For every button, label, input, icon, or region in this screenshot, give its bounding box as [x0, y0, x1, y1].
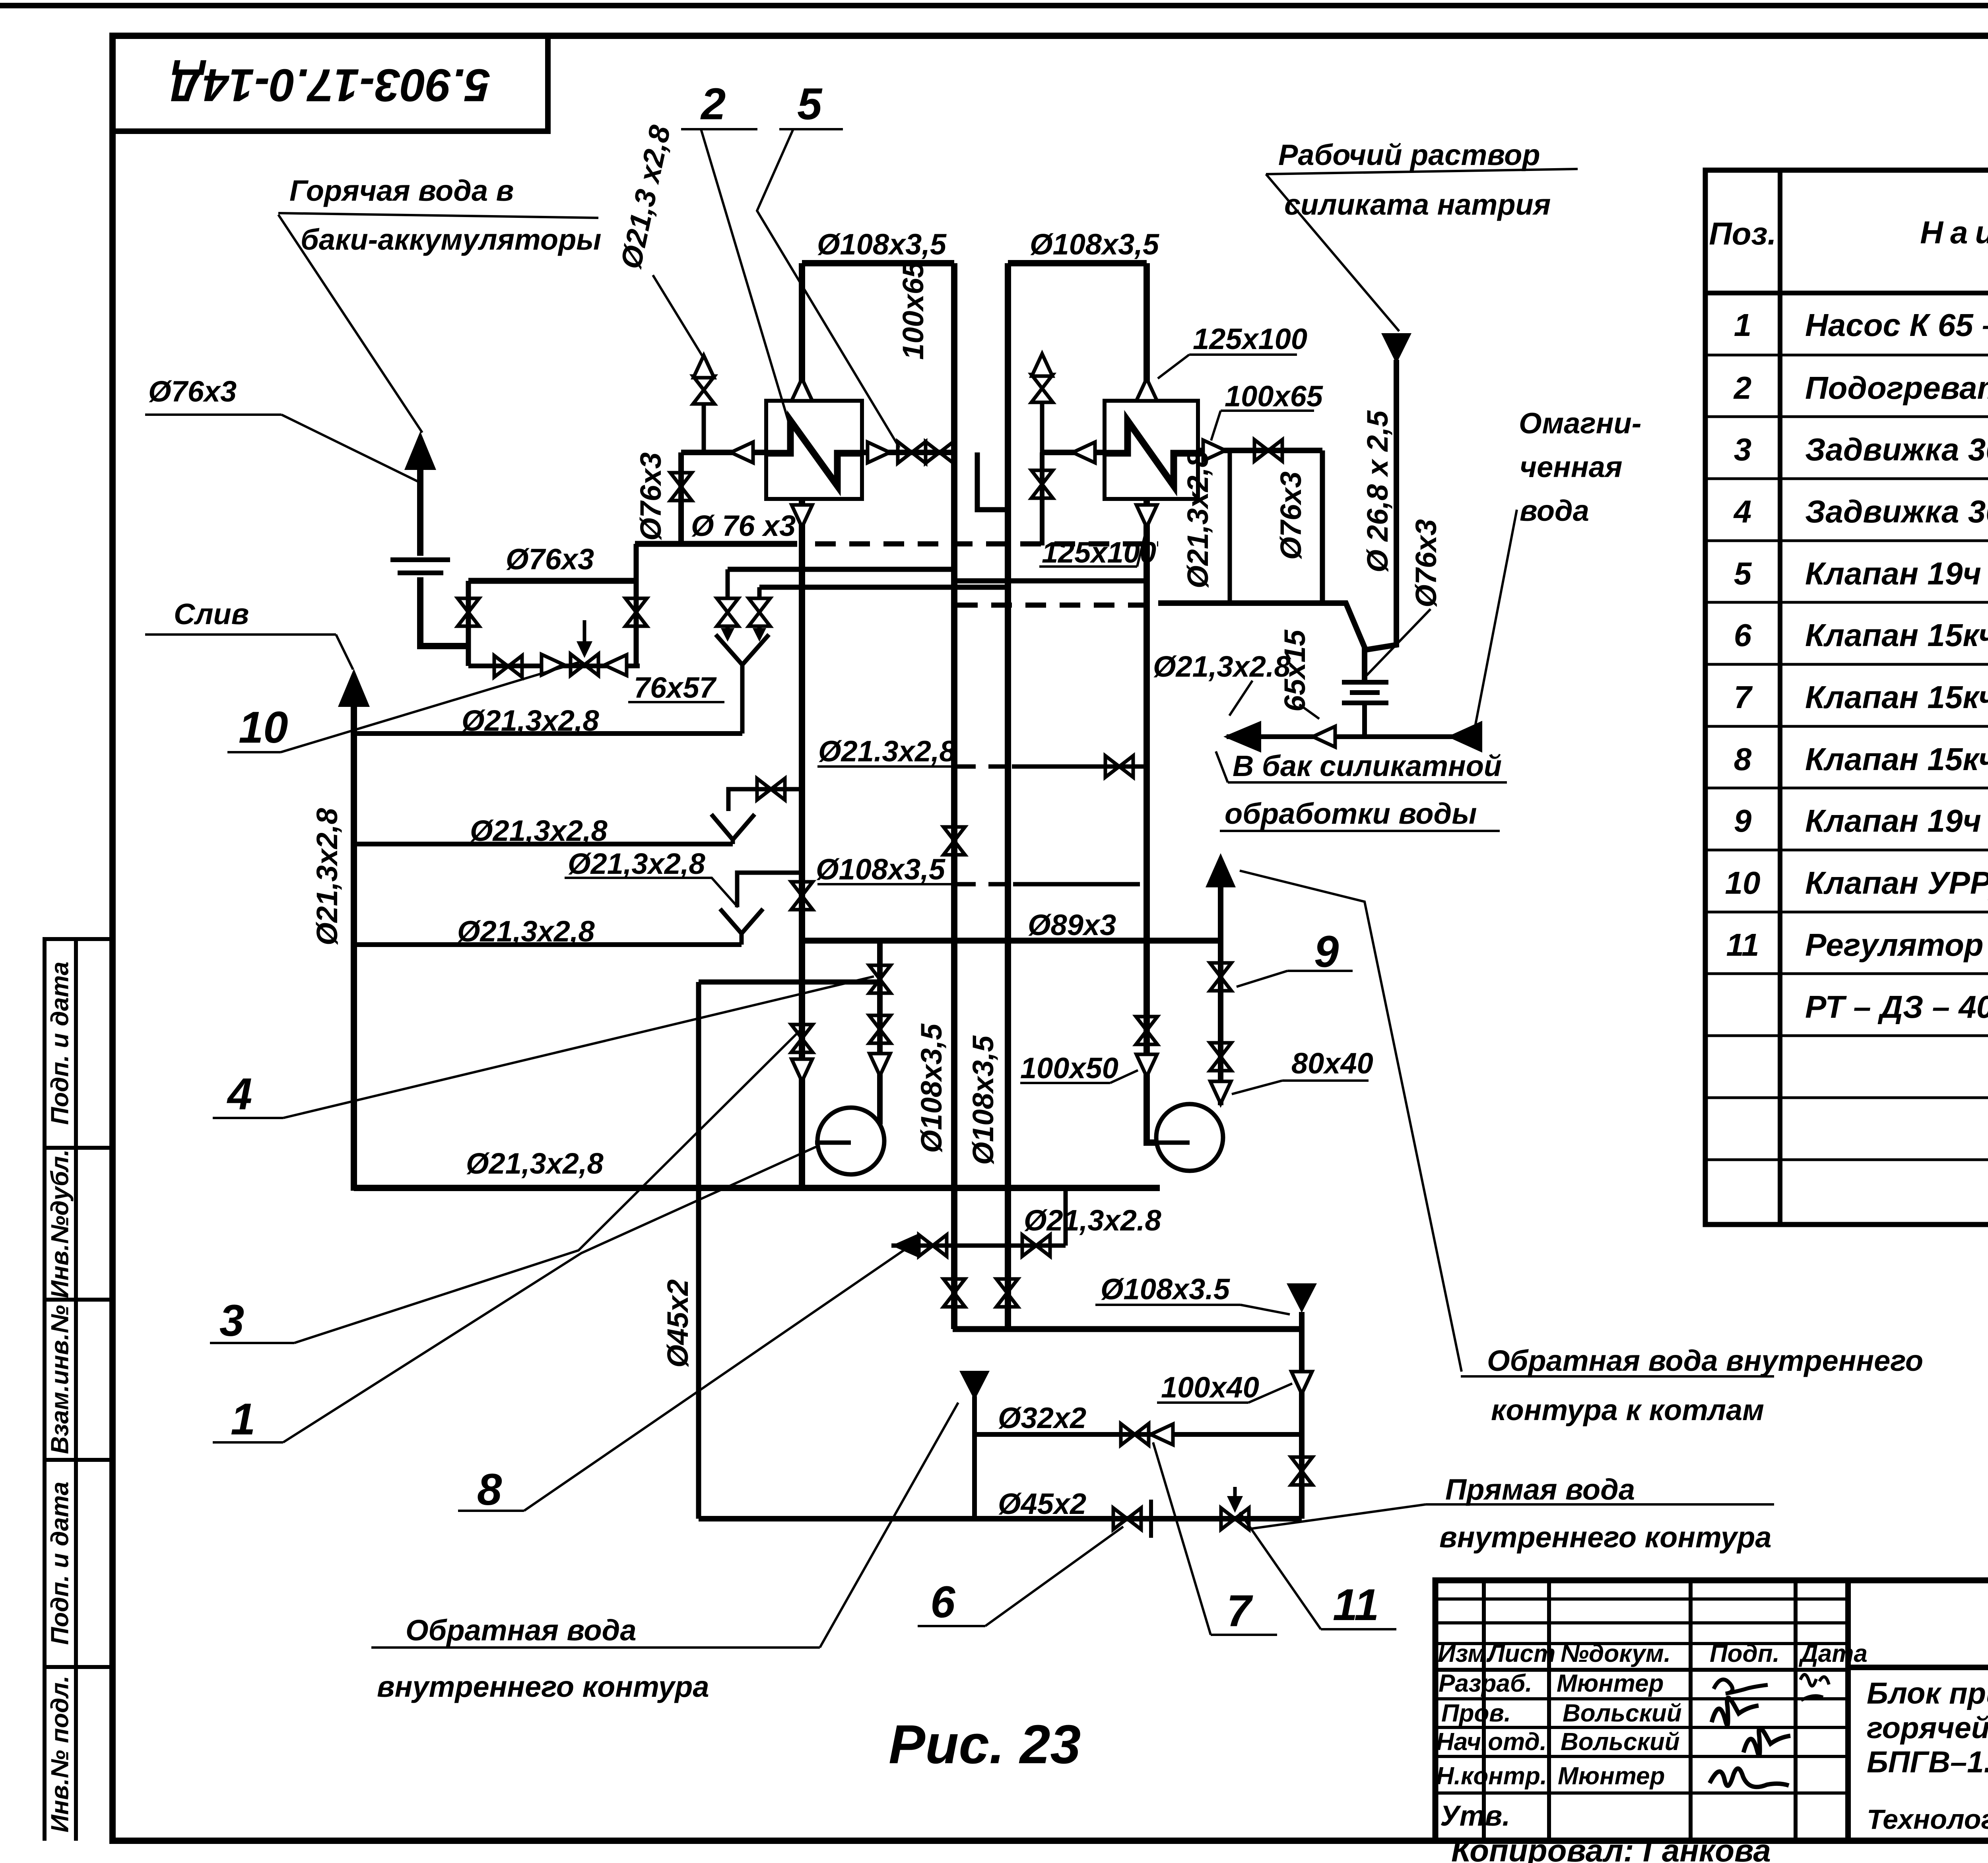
sliv arrow: [338, 669, 370, 707]
magnetizer bar 2: [1350, 690, 1380, 695]
boiler return arrow up: [1206, 853, 1236, 887]
hx1 right pipe: [861, 450, 954, 455]
svg-text:Ø45х2: Ø45х2: [998, 1487, 1086, 1520]
svg-text:ченная: ченная: [1520, 450, 1622, 483]
svg-text:Ø21,3х2,8: Ø21,3х2,8: [470, 814, 608, 847]
svg-text:Утв.: Утв.: [1440, 1800, 1510, 1832]
leader pos4: [283, 976, 874, 1118]
riser1 top arrow: [792, 378, 812, 401]
funnel C stem: [740, 932, 744, 945]
tb hline row razrab: [1435, 1697, 1848, 1700]
SEC-TABLE: [1705, 170, 1988, 1225]
tb date scribble: [1800, 1675, 1829, 1700]
leader 125x100 lower: [1137, 522, 1148, 567]
leader 21.3 funnel c label: [565, 878, 738, 907]
underline 125x100 lower label: [1039, 565, 1137, 568]
svg-text:Подогреватель водоводяной: Подогреватель водоводяной: [1805, 370, 1988, 406]
svg-text:Обратная вода: Обратная вода: [406, 1614, 636, 1647]
svg-text:4: 4: [227, 1069, 252, 1119]
dashed tie line 76x3: [815, 541, 1158, 547]
pump drain line: [891, 1244, 1066, 1248]
hx2 left check arrow: [1073, 442, 1095, 463]
tb vline podp: [1794, 1580, 1798, 1841]
underline hot water label: [278, 213, 598, 218]
funnel B stem: [731, 838, 735, 844]
vent 1 valve: [693, 376, 714, 404]
hx1 left drop: [678, 452, 684, 545]
right leg down: [1299, 1329, 1305, 1519]
table row line 14: [1705, 1159, 1988, 1161]
left margin box line 1: [43, 937, 113, 941]
svg-text:внутреннего контура: внутреннего контура: [1439, 1521, 1772, 1554]
svg-text:3: 3: [1734, 432, 1752, 467]
regulator loop left: [696, 982, 701, 1519]
lower header riser stub: [1299, 1312, 1305, 1329]
top header 2 108x3.5: [1008, 260, 1147, 266]
table row line 5: [1705, 601, 1988, 604]
SEC-TITLEBLOCK: [1435, 1580, 1988, 1841]
svg-text:РТ – ДЗ – 40 ( 40 – 80 ) – 6: РТ – ДЗ – 40 ( 40 – 80 ) – 6: [1805, 989, 1988, 1025]
svg-text:Подп. и дата: Подп. и дата: [46, 962, 74, 1125]
table row line 2: [1705, 415, 1988, 418]
table row line 4: [1705, 539, 1988, 542]
underline pos3: [210, 1342, 294, 1344]
leader pos11: [1240, 1512, 1321, 1629]
svg-text:обработки воды: обработки воды: [1225, 797, 1477, 830]
svg-text:Рис. 23: Рис. 23: [889, 1714, 1081, 1775]
underline pos8: [458, 1510, 524, 1512]
tie 108 solid: [1013, 882, 1140, 887]
svg-text:Разраб.: Разраб.: [1439, 1670, 1532, 1697]
drip stub arrow a: [726, 625, 730, 635]
valve on drain tie: [1105, 756, 1133, 777]
svg-text:8: 8: [477, 1465, 502, 1514]
magnetizer bar 1: [1342, 680, 1388, 685]
drain line 3: [357, 942, 742, 947]
underline pos5: [779, 128, 843, 130]
left margin box line 2: [43, 1146, 113, 1150]
svg-text:В бак силикатной: В бак силикатной: [1233, 749, 1502, 782]
svg-text:Вольский: Вольский: [1561, 1728, 1680, 1756]
hx1 right check arrow: [868, 442, 890, 463]
svg-text:Н.контр.: Н.контр.: [1436, 1762, 1547, 1790]
blowoff branch from riser 1: [728, 789, 802, 811]
svg-text:Подп. и дата: Подп. и дата: [46, 1482, 74, 1645]
underline 108x3.5 lower label: [1095, 1304, 1241, 1306]
leader 76x3 top label: [282, 415, 419, 482]
hx2 drain drop 21.3: [1228, 450, 1232, 603]
svg-text:Ø108х3,5: Ø108х3,5: [915, 1023, 948, 1153]
leader pos2: [701, 129, 788, 421]
underline 125x100 upper label: [1189, 353, 1297, 356]
svg-text:2: 2: [700, 79, 726, 129]
svg-text:Клапан 15кч 19п2 dу 25: Клапан 15кч 19п2 dу 25: [1805, 679, 1988, 715]
pump 2: [1156, 1104, 1223, 1171]
svg-text:контура к котлам: контура к котлам: [1491, 1393, 1764, 1426]
pump drain arrow: [891, 1233, 919, 1258]
svg-text:1: 1: [1734, 307, 1752, 343]
underline 100x50 label: [1020, 1082, 1110, 1084]
hx2 left drop: [1040, 452, 1044, 545]
svg-text:Прямая вода: Прямая вода: [1445, 1473, 1635, 1506]
svg-text:5: 5: [797, 79, 823, 129]
svg-text:10: 10: [239, 703, 288, 752]
tie line c: [954, 578, 1147, 584]
svg-text:3: 3: [219, 1296, 244, 1345]
drip stub from line 108x3.5b: [757, 587, 762, 600]
svg-text:1: 1: [231, 1394, 255, 1444]
lower arrow on riser1: [792, 1059, 812, 1081]
leader omagnichennaya label: [1474, 510, 1517, 735]
pump2 discharge reducer: [1210, 1081, 1231, 1104]
check on 32x2 line: [1151, 1424, 1173, 1445]
svg-text:11: 11: [1333, 1580, 1379, 1630]
svg-text:Ø21,3х2.8: Ø21,3х2.8: [1024, 1204, 1161, 1237]
drain assembly line 76x57: [468, 664, 640, 668]
riser4 suction reducer: [1136, 1054, 1157, 1077]
hot water pipe vertical: [417, 467, 423, 556]
svg-text:Изм.: Изм.: [1438, 1640, 1493, 1667]
underline 80x40 label: [1282, 1079, 1369, 1082]
svg-text:Клапан 15кч 19п2 dу 40: Клапан 15кч 19п2 dу 40: [1805, 617, 1988, 653]
underline pos1: [213, 1441, 283, 1444]
underline 76x3 top label: [145, 413, 282, 416]
svg-text:7: 7: [1734, 679, 1753, 715]
check arrow silicate line: [1313, 726, 1335, 747]
svg-text:Ø 26,8 х 2,5: Ø 26,8 х 2,5: [1361, 410, 1394, 572]
bypass right valve: [625, 598, 647, 626]
svg-text:Обратная вода внутреннего: Обратная вода внутреннего: [1487, 1344, 1923, 1377]
valve 10 actuator arrowhead: [577, 641, 592, 658]
tb vline data: [1845, 1580, 1851, 1841]
magnetizer bar 3: [1342, 701, 1388, 705]
svg-text:Ø32х2: Ø32х2: [998, 1401, 1086, 1434]
paper top edge line: [0, 3, 1988, 8]
svg-text:Слив: Слив: [174, 598, 249, 631]
svg-text:Блок приготовления: Блок приготовления: [1867, 1677, 1988, 1710]
underline pos4: [213, 1117, 283, 1119]
check valve on drain assembly: [542, 654, 564, 675]
underline pos2: [681, 128, 757, 130]
svg-text:6: 6: [1734, 617, 1752, 653]
svg-text:баки-аккумуляторы: баки-аккумуляторы: [301, 223, 601, 256]
underline v bak line1: [1228, 781, 1507, 784]
tie line b: [759, 585, 1008, 590]
check valve left on drain assembly: [604, 655, 627, 675]
regulator 11 actuator arrowhead: [1227, 1496, 1243, 1513]
main riser 1: [799, 263, 805, 1191]
leader sliv label: [336, 635, 353, 670]
pump1 discharge reducer: [870, 1054, 890, 1076]
valve 10 actuator arrow: [583, 620, 586, 654]
svg-text:Ø76х3: Ø76х3: [148, 375, 237, 408]
tb hline row nkontr: [1435, 1791, 1848, 1795]
pipe 32x2 arrow: [959, 1371, 990, 1400]
svg-text:Насос К 65 – 50 – 160: Насос К 65 – 50 – 160: [1805, 307, 1988, 343]
riser4 bottom arrow: [1136, 505, 1157, 527]
svg-text:Омагни-: Омагни-: [1519, 407, 1641, 440]
water seal bar 1: [390, 557, 450, 562]
heat exchanger 2: [1105, 401, 1198, 499]
magnet feed line: [1158, 603, 1365, 681]
left margin box line 5: [43, 1665, 113, 1669]
svg-text:Ø76х3: Ø76х3: [1409, 519, 1442, 607]
pump1 discharge column: [877, 941, 883, 1124]
leader 65x15 label: [1299, 704, 1319, 719]
svg-text:Ø 76 х3: Ø 76 х3: [691, 509, 796, 542]
svg-text:9: 9: [1314, 927, 1339, 976]
svg-text:Ø108х3,5: Ø108х3,5: [817, 228, 947, 261]
regulator valve 11: [1221, 1508, 1249, 1529]
hx1 left drop valve: [670, 473, 692, 501]
drain tie 21.3 dashed: [957, 765, 1012, 769]
underline 76x57 label: [628, 701, 724, 703]
silicate pipe 26.8x2.5: [1367, 360, 1396, 650]
lower header 108x3.5: [953, 1326, 1302, 1332]
stamp box bottom line: [110, 128, 551, 134]
water seal bar 2: [398, 571, 443, 575]
drip stub from line 108x3.5a: [726, 569, 730, 600]
funnel A: [716, 635, 769, 665]
SEC-SCHEMA-VALVES: [458, 354, 1335, 1538]
underline obratnaya label: [371, 1646, 820, 1649]
drain line to sliv: [357, 731, 742, 736]
underline pos10: [227, 751, 281, 753]
drip valve a: [717, 598, 738, 626]
svg-text:4: 4: [1733, 494, 1752, 529]
regulator loop top: [699, 980, 880, 985]
drain line 2: [357, 842, 733, 846]
table row line 11: [1705, 972, 1988, 975]
table row line 1: [1705, 354, 1988, 357]
valve 10 URRD on drain assembly: [571, 654, 598, 675]
leader vent1 label: [653, 275, 703, 357]
lower valve on riser1: [791, 1025, 813, 1052]
svg-text:125х100: 125х100: [1193, 322, 1307, 355]
svg-text:Задвижка 30ч 6бр dу 80: Задвижка 30ч 6бр dу 80: [1805, 494, 1988, 529]
bypass right drop: [634, 544, 639, 666]
leader 100x40: [1248, 1384, 1292, 1403]
leader obratnaya kotlam: [1240, 871, 1462, 1372]
silicate tank arrow right: [1447, 721, 1482, 753]
leader pos6: [985, 1527, 1123, 1626]
SEC-SCHEMA-LABELS: [145, 129, 1774, 1648]
pipe 32x2 line: [975, 1432, 1302, 1437]
svg-text:76х57: 76х57: [634, 671, 717, 704]
svg-text:Технологическая схема.: Технологическая схема.: [1867, 1804, 1988, 1835]
riser3 lower valve: [996, 1279, 1018, 1307]
blowoff branch 2 from riser 1: [737, 873, 802, 907]
leader 100x50: [1110, 1070, 1138, 1083]
pump2 outlet stub and arrow: [1218, 886, 1223, 941]
underline v bak line2: [1220, 830, 1500, 832]
svg-text:10: 10: [1725, 865, 1761, 900]
drip arrow b: [753, 628, 766, 642]
svg-text:Ø76х3: Ø76х3: [1274, 472, 1307, 560]
table row line 6: [1705, 663, 1988, 666]
svg-text:2: 2: [1733, 370, 1752, 406]
svg-text:Ø21,3х2,8: Ø21,3х2,8: [466, 1147, 604, 1180]
svg-text:Взам.инв.№: Взам.инв.№: [46, 1305, 74, 1454]
hx2 left pipe: [1042, 450, 1106, 455]
svg-text:горячей воды: горячей воды: [1867, 1711, 1988, 1745]
svg-text:Ø108х3,5: Ø108х3,5: [816, 853, 946, 886]
bypass left valve: [458, 598, 479, 626]
tb vline list: [1547, 1580, 1551, 1841]
svg-text:9: 9: [1734, 803, 1752, 838]
svg-text:Рабочий раствор: Рабочий раствор: [1278, 138, 1540, 171]
seal tick on 45x2 line: [1149, 1500, 1153, 1538]
sliv riser: [351, 704, 357, 1191]
svg-text:7: 7: [1227, 1586, 1253, 1636]
table row line 3: [1705, 477, 1988, 480]
leader rabochiy label: [1266, 174, 1399, 331]
svg-text:Нач.отд.: Нач.отд.: [1436, 1728, 1547, 1756]
svg-text:Ø21,3х2,8: Ø21,3х2,8: [462, 704, 599, 737]
underline obratnaya kotlam: [1461, 1375, 1774, 1378]
leader pos9: [1237, 971, 1287, 987]
tb hline under izm header: [1435, 1668, 1848, 1672]
tb signature nkontr: [1710, 1768, 1789, 1787]
underline 21.3 label drain tie: [817, 765, 952, 768]
leader 108x3.5 lower: [1241, 1305, 1290, 1314]
pipe 32x2 drop: [972, 1396, 977, 1519]
table row line 10: [1705, 911, 1988, 914]
valve at hx2 outlet: [1254, 440, 1282, 461]
dashed tie line d: [957, 603, 1158, 608]
svg-text:6: 6: [930, 1577, 955, 1627]
leader 125x100 upper: [1158, 355, 1189, 378]
svg-text:Клапан УРРД – М„НО"dу 50: Клапан УРРД – М„НО"dу 50: [1805, 865, 1988, 900]
svg-text:Дата: Дата: [1798, 1640, 1868, 1667]
svg-text:8: 8: [1734, 741, 1752, 777]
hx1 vent stub: [702, 402, 706, 452]
svg-text:Ø76х3: Ø76х3: [634, 452, 667, 541]
valve 5a at hx1 outlet: [898, 442, 926, 463]
underline rabochiy label: [1266, 169, 1578, 174]
svg-text:Ø89х3: Ø89х3: [1028, 908, 1116, 941]
riser1 bottom arrow: [792, 505, 812, 527]
tie 108 dashed: [957, 882, 1013, 887]
tb hline row nachotd: [1435, 1755, 1848, 1758]
table row line 13: [1705, 1096, 1988, 1099]
tie line a: [728, 567, 954, 572]
pump 1 hub line: [815, 1141, 851, 1145]
left margin column outer line: [43, 939, 47, 1841]
hot water outlet arrow: [404, 431, 436, 470]
vent 1 tip: [693, 355, 714, 378]
pump2 discharge column: [1218, 941, 1223, 1105]
SEC-SCHEMA-PIPES: [338, 263, 1482, 1519]
svg-text:Ø108х3,5: Ø108х3,5: [967, 1035, 1000, 1165]
vent 2 valve: [1031, 375, 1053, 402]
svg-text:Пров.: Пров.: [1441, 1700, 1511, 1727]
svg-text:100х50: 100х50: [1020, 1052, 1118, 1085]
hot water pipe lower elbow: [420, 577, 468, 646]
riser4 top arrow: [1136, 378, 1157, 401]
pump2 discharge valve lower: [1210, 1043, 1231, 1071]
svg-text:100х65: 100х65: [1225, 380, 1324, 413]
funnel C: [720, 909, 763, 933]
leader pos3: [294, 1030, 800, 1343]
table row line 12: [1705, 1034, 1988, 1037]
stamp box right line: [545, 36, 551, 131]
svg-text:БПГВ–1.: БПГВ–1.: [1867, 1745, 1988, 1779]
underline 108 label tie: [817, 883, 952, 885]
svg-text:11: 11: [1726, 927, 1759, 963]
pump 1: [817, 1108, 884, 1174]
svg-text:№докум.: №докум.: [1561, 1640, 1671, 1667]
svg-text:Поз.: Поз.: [1709, 216, 1776, 251]
svg-text:Клапан 19ч 14бр dу 65: Клапан 19ч 14бр dу 65: [1805, 556, 1988, 591]
table row line 8: [1705, 787, 1988, 790]
leader pryamaya: [1248, 1504, 1426, 1529]
pump drain rise: [1064, 1188, 1068, 1246]
funnel B: [711, 814, 755, 840]
suction header: [354, 1185, 1160, 1191]
heat exchanger 1 coil: [766, 421, 862, 486]
svg-text:Горячая вода в: Горячая вода в: [289, 174, 514, 207]
main riser 2: [951, 263, 957, 1329]
drip stub arrow b: [757, 625, 762, 635]
underline pos9: [1287, 970, 1353, 972]
svg-text:Клапан 15кч 18п1 dу 15: Клапан 15кч 18п1 dу 15: [1805, 741, 1988, 777]
drain valve a between pumps: [919, 1235, 947, 1256]
svg-text:Регулятор температур: Регулятор температур: [1805, 927, 1988, 963]
tb signature nachotd: [1743, 1728, 1790, 1755]
svg-text:Вольский: Вольский: [1563, 1700, 1682, 1727]
pump 2 hub line: [1156, 1141, 1190, 1145]
valve 6 on 45x2 line: [1113, 1508, 1141, 1529]
svg-text:100х65: 100х65: [897, 261, 930, 360]
underline pos11: [1321, 1628, 1396, 1630]
pump2 discharge valve upper: [1210, 963, 1231, 991]
leader pos5: [757, 129, 899, 448]
svg-text:Инв.№ подл.: Инв.№ подл.: [46, 1676, 74, 1833]
svg-text:Ø21.3х2,8: Ø21.3х2,8: [818, 735, 956, 768]
top header 1 108x3.5: [802, 260, 954, 266]
svg-text:Ø45х2: Ø45х2: [661, 1279, 694, 1368]
drain valve b between pumps: [1022, 1235, 1050, 1256]
underline 100x65 label: [1221, 409, 1314, 412]
tb vline dokum: [1689, 1580, 1693, 1841]
underline pos7: [1211, 1634, 1277, 1636]
hx2 left drop valve: [1031, 470, 1053, 498]
boiler return arrow down: [1287, 1283, 1317, 1313]
magnetizer outlet: [1362, 705, 1367, 737]
left margin box line 3: [43, 1298, 113, 1302]
riser4 suction valve: [1136, 1017, 1157, 1044]
svg-text:Ø76х3: Ø76х3: [506, 543, 594, 576]
leader 100x65: [1211, 411, 1221, 441]
leader 21.3 silicate label: [1229, 681, 1252, 716]
leader hot water label: [278, 215, 422, 433]
main riser 4: [1147, 263, 1158, 1143]
crossover branch: [977, 452, 1008, 510]
leader pos7: [1153, 1442, 1211, 1635]
silicate solution arrow: [1381, 333, 1411, 364]
vent 2 tip: [1032, 354, 1052, 376]
tb hline under doc number: [1848, 1665, 1988, 1670]
svg-text:Задвижка 30ч 6бр dу 100: Задвижка 30ч 6бр dу 100: [1805, 432, 1988, 467]
leader pos10: [281, 662, 581, 752]
svg-text:Лист: Лист: [1486, 1640, 1555, 1667]
tick v bak: [1216, 751, 1228, 782]
left margin column divider: [74, 939, 78, 1841]
svg-text:вода: вода: [1520, 494, 1589, 527]
tb signature prov: [1712, 1698, 1759, 1725]
main header 89x3: [802, 938, 1221, 944]
